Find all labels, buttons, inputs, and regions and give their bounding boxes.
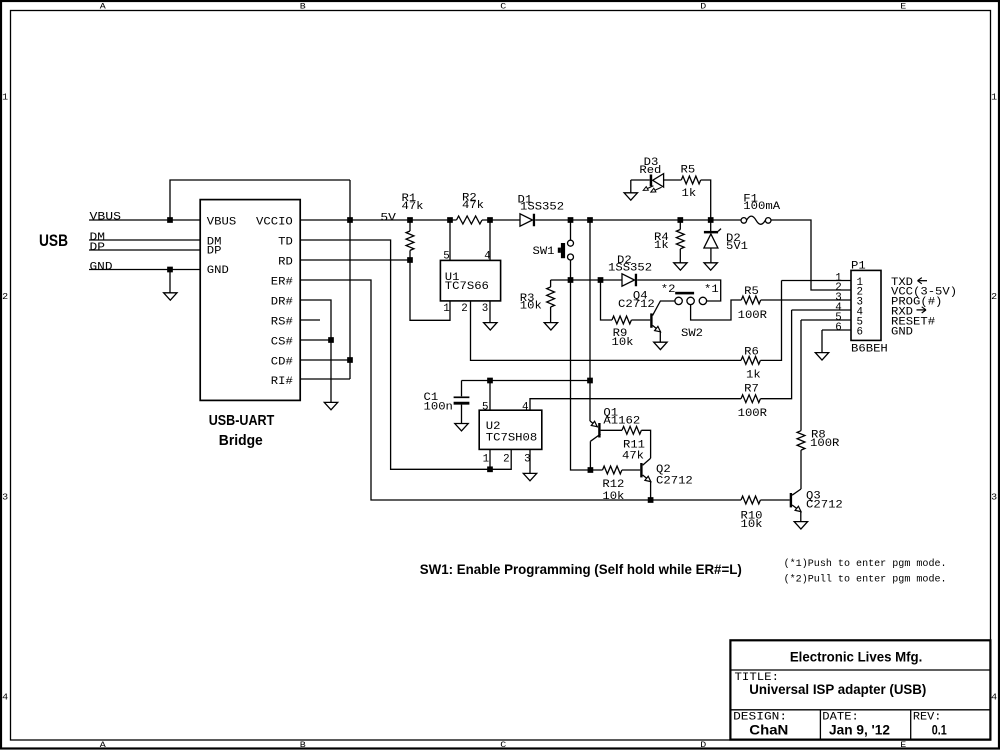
title block divider v1 — [819, 710, 821, 740]
wire RI# — [300, 378, 350, 380]
transistor Q4 base bar — [650, 313, 652, 327]
junction R4 top — [677, 217, 683, 223]
wire GND — [89, 269, 200, 271]
wire U1 pin4 up — [489, 220, 491, 260]
svg-text:1SS352: 1SS352 — [520, 201, 564, 213]
resistor R2 body — [457, 216, 483, 224]
wire R8 to Q3 — [800, 450, 802, 489]
fuse F1 — [741, 218, 747, 224]
svg-text:4: 4 — [991, 692, 997, 702]
resistor R9 body — [612, 316, 631, 324]
wire Q3 emitter lead — [792, 505, 801, 521]
svg-text:TC7S66: TC7S66 — [445, 281, 489, 293]
svg-text:U2: U2 — [486, 421, 501, 433]
junction CD# — [347, 357, 353, 363]
diode D1 1SS352 — [520, 214, 533, 227]
switch SW1 top contact — [568, 240, 574, 246]
connector P1 box — [851, 270, 881, 340]
diode D2 zener triangle — [704, 234, 718, 248]
junction CS# — [328, 337, 334, 343]
LED D3 emission arrow 2 — [653, 187, 662, 191]
wire C1 top stub — [461, 381, 463, 397]
svg-text:CS#: CS# — [271, 336, 293, 348]
svg-text:VBUS: VBUS — [207, 217, 237, 229]
svg-text:B6BEH: B6BEH — [851, 344, 888, 356]
wire 5V to Q1 emitter — [589, 381, 591, 422]
wire R12 to Q2 base — [622, 469, 640, 471]
svg-text:DESIGN:: DESIGN: — [733, 711, 787, 723]
transistor Q3 base bar — [790, 493, 792, 507]
svg-text:3: 3 — [2, 492, 8, 502]
junction U2 pin5 rail — [487, 378, 493, 384]
junction GND — [167, 267, 173, 273]
wire U2 pin1 — [489, 449, 491, 469]
svg-text:10k: 10k — [612, 337, 634, 349]
junction U2 pin1 — [487, 466, 493, 472]
svg-text:GND: GND — [90, 262, 113, 274]
svg-text:R5: R5 — [744, 286, 759, 298]
transistor Q1 base bar — [598, 423, 600, 438]
resistor R10 body — [741, 496, 760, 504]
wire DM — [89, 239, 200, 241]
svg-text:2: 2 — [461, 303, 468, 315]
svg-text:10k: 10k — [741, 519, 763, 531]
wire U2 pin5 — [489, 381, 491, 411]
svg-text:GND: GND — [891, 327, 913, 339]
svg-text:Jan 9, '12: Jan 9, '12 — [829, 723, 890, 738]
ground symbol R3 — [544, 323, 557, 330]
wire D2 to SW2 — [637, 280, 721, 301]
svg-text:4: 4 — [522, 402, 529, 414]
svg-text:10k: 10k — [520, 301, 542, 313]
junction VBUS — [167, 217, 173, 223]
wire U2 vcc rail — [462, 380, 591, 382]
wire U1 pin2 down to R6 rail — [471, 301, 742, 361]
wire R4 top stub — [679, 220, 681, 230]
wire Q4 collector — [653, 301, 675, 316]
svg-text:USB: USB — [39, 232, 68, 250]
ground symbol U1 pin3 — [484, 323, 497, 330]
wire fuse to P1 pin2 — [771, 220, 851, 290]
ground symbol P1 — [815, 353, 828, 360]
svg-text:47k: 47k — [462, 200, 484, 212]
wire VCCIO to R2 — [300, 219, 457, 221]
svg-text:2: 2 — [2, 292, 8, 302]
svg-text:DP: DP — [207, 246, 222, 258]
svg-text:SW1: Enable Programming (Self: SW1: Enable Programming (Self hold while… — [420, 561, 742, 577]
ground symbol zener — [704, 263, 717, 270]
arrow RXD out — [917, 309, 927, 311]
svg-text:(*1)Push to enter pgm mode.: (*1)Push to enter pgm mode. — [784, 558, 947, 570]
wire pgm row — [551, 279, 622, 281]
switch SW2 actuator bar — [675, 292, 694, 295]
svg-text:C2712: C2712 — [806, 499, 843, 511]
svg-text:3: 3 — [482, 303, 489, 315]
svg-text:100R: 100R — [738, 310, 768, 322]
USB-UART bridge IC box — [200, 200, 300, 401]
wire RD to U1 pin1 — [410, 260, 450, 320]
wire U1 pin5 up — [449, 220, 451, 260]
svg-text:5: 5 — [443, 251, 450, 263]
wire U2 pin4 out — [530, 399, 741, 411]
junction top rail VCCIO — [347, 217, 353, 223]
wire R5 to P1 pin3 — [761, 299, 851, 301]
wire 5V rail drop x590 — [589, 220, 591, 381]
transistor Q2 collector lead — [643, 458, 651, 465]
wire R4 bottom stub — [679, 249, 681, 263]
wire Q4 emitter — [653, 325, 661, 342]
svg-text:3: 3 — [991, 492, 997, 502]
wire TD down — [300, 240, 490, 469]
wire LED gnd stub — [630, 180, 632, 193]
resistor R5 1k body — [681, 176, 700, 184]
wire RESET down — [800, 320, 802, 431]
wire LED gnd side — [631, 179, 650, 181]
transistor Q1 emitter arrow — [591, 421, 597, 426]
wire C1 bottom stub — [461, 405, 463, 424]
wire DP — [89, 249, 200, 251]
svg-text:10k: 10k — [602, 491, 624, 503]
wire zener top stub — [710, 220, 712, 231]
wire P1 pin4 — [792, 309, 851, 311]
junction RD R1 — [407, 257, 413, 263]
resistor R1 body — [406, 231, 414, 250]
resistor R8 body — [797, 431, 805, 450]
resistor R3 body — [547, 287, 555, 307]
svg-text:Red: Red — [639, 165, 661, 177]
svg-text:RI#: RI# — [271, 376, 293, 388]
diode D2 1SS352 — [622, 274, 635, 287]
svg-text:*2: *2 — [661, 284, 676, 296]
svg-text:REV:: REV: — [913, 711, 942, 723]
resistor R12 body — [603, 466, 622, 474]
svg-text:Electronic Lives Mfg.: Electronic Lives Mfg. — [790, 649, 923, 665]
svg-text:1k: 1k — [682, 188, 697, 200]
svg-text:ChaN: ChaN — [749, 723, 788, 738]
resistor R7 body — [741, 395, 760, 403]
wire top rail down — [349, 180, 351, 379]
wire R9 left — [601, 280, 613, 320]
svg-text:2: 2 — [991, 292, 997, 302]
wire R11 to Q2 collector — [641, 430, 650, 458]
op-amp U1 box — [440, 260, 500, 301]
transistor Q3 collector lead — [792, 489, 801, 495]
ground symbol Q3 — [794, 522, 807, 529]
svg-text:1: 1 — [991, 92, 997, 102]
switch SW1 plunger — [561, 243, 565, 258]
ground symbol USB — [164, 293, 177, 300]
svg-text:VCCIO: VCCIO — [256, 216, 293, 228]
svg-text:Bridge: Bridge — [219, 432, 263, 449]
transistor Q2 emitter arrow — [645, 476, 651, 481]
wire D1 to fuse — [535, 219, 741, 221]
junction SW1 top — [568, 217, 574, 223]
svg-text:VBUS: VBUS — [90, 212, 122, 224]
resistor R4 body — [676, 230, 684, 249]
svg-text:CD#: CD# — [271, 356, 293, 368]
svg-text:TC7SH08: TC7SH08 — [486, 433, 537, 445]
wire P1 pin5 — [801, 319, 851, 321]
junction Q2 emitter — [648, 497, 654, 503]
svg-text:TD: TD — [278, 236, 293, 248]
title block divider v2 — [910, 710, 912, 740]
svg-text:D: D — [700, 740, 706, 750]
op-amp U2 box — [479, 410, 542, 449]
svg-text:0.1: 0.1 — [932, 723, 947, 738]
junction Q1 collector base row — [588, 467, 594, 473]
wire SW1 row down — [571, 280, 603, 470]
transistor Q2 base bar — [640, 463, 642, 477]
wire P1 pin6 — [822, 329, 851, 331]
svg-text:1k: 1k — [654, 240, 669, 252]
svg-text:47k: 47k — [622, 450, 644, 462]
wire R5 to rail — [701, 180, 711, 220]
switch SW2 right contact — [699, 297, 706, 304]
wire SW1 top — [570, 220, 572, 240]
wire P1 pin1 — [782, 280, 852, 282]
svg-text:B: B — [300, 2, 306, 12]
svg-text:A: A — [100, 740, 107, 750]
wire U2 pins 1-2 link — [490, 449, 511, 469]
svg-text:E: E — [900, 2, 906, 12]
svg-text:47k: 47k — [402, 201, 424, 213]
LED D3 triangle — [653, 174, 664, 188]
svg-text:USB-UART: USB-UART — [209, 412, 275, 429]
wire R9 to Q4 base — [631, 319, 650, 321]
svg-text:E: E — [900, 740, 906, 750]
svg-text:100R: 100R — [738, 408, 768, 420]
junction zener top — [708, 217, 714, 223]
svg-text:6: 6 — [835, 322, 842, 334]
switch SW2 left contact — [675, 297, 682, 304]
wire U1 pin3 down — [489, 301, 491, 323]
ground symbol R4 — [674, 263, 687, 270]
svg-text:5: 5 — [482, 402, 489, 414]
junction U1 pin4 rail — [487, 217, 493, 223]
capacitor C1 plates — [454, 396, 470, 398]
wire ER# down — [300, 280, 741, 500]
svg-text:100R: 100R — [810, 438, 840, 450]
svg-text:1: 1 — [443, 303, 450, 315]
wire RD — [300, 259, 410, 261]
svg-text:1: 1 — [2, 92, 8, 102]
svg-text:C2712: C2712 — [618, 299, 655, 311]
svg-text:DATE:: DATE: — [822, 711, 859, 723]
wire Q1 base to R11 — [601, 429, 622, 431]
wire SW1 bottom — [570, 260, 572, 280]
wire Q1 collector down — [589, 441, 591, 470]
transistor Q3 emitter arrow — [795, 506, 801, 511]
svg-text:C: C — [500, 2, 506, 12]
svg-text:RS#: RS# — [271, 316, 293, 328]
title block divider 1 — [730, 669, 990, 671]
svg-text:1k: 1k — [746, 370, 761, 382]
title block box — [730, 640, 990, 739]
svg-text:A1162: A1162 — [603, 416, 640, 428]
svg-text:RD: RD — [278, 256, 293, 268]
svg-text:DR#: DR# — [271, 296, 293, 308]
wire R2 to D1 — [482, 219, 520, 221]
svg-text:5V1: 5V1 — [726, 241, 748, 253]
svg-text:5V: 5V — [380, 212, 396, 224]
wire CD# — [300, 359, 350, 361]
ground symbol Q4 — [654, 342, 667, 349]
wire U2 pin3 gnd — [529, 449, 531, 473]
svg-text:Universal ISP adapter (USB): Universal ISP adapter (USB) — [749, 682, 926, 697]
svg-text:SW2: SW2 — [681, 328, 703, 340]
junction x590 rail — [587, 217, 593, 223]
wire CS# — [300, 339, 331, 341]
svg-text:SW1: SW1 — [533, 246, 555, 258]
wire P1 pin6 gnd — [821, 330, 823, 352]
junction SW1 bottom row — [568, 277, 574, 283]
ground symbol C1 — [455, 424, 468, 431]
svg-text:R7: R7 — [744, 384, 759, 396]
svg-text:100n: 100n — [424, 401, 453, 413]
resistor R6 body — [741, 357, 760, 365]
ground symbol DR CS — [324, 402, 337, 409]
wire R7 to P1 pin4 — [760, 310, 791, 399]
svg-text:B: B — [300, 740, 306, 750]
svg-text:C: C — [500, 740, 506, 750]
wire Q2 emitter lead — [643, 475, 651, 500]
svg-text:R12: R12 — [602, 479, 624, 491]
svg-text:DP: DP — [90, 242, 106, 254]
svg-text:*1: *1 — [704, 284, 719, 296]
transistor Q1 collector lead — [590, 434, 600, 441]
wire R1 bottom stub — [409, 250, 411, 260]
transistor Q1 emitter lead — [590, 421, 598, 427]
ground symbol U2 pin3 — [523, 473, 536, 480]
diode D2 zener bar — [704, 231, 718, 234]
transistor Q4 emitter arrow — [655, 326, 661, 331]
wire R6 to P1 pin1 — [760, 281, 781, 361]
junction R9 row — [598, 277, 604, 283]
svg-text:100mA: 100mA — [743, 201, 780, 213]
svg-text:1SS352: 1SS352 — [608, 263, 652, 275]
svg-text:A: A — [100, 2, 107, 12]
junction R1 top — [407, 217, 413, 223]
wire VBUS — [89, 219, 200, 221]
svg-text:D: D — [700, 2, 706, 12]
wire LED to R5 — [664, 179, 682, 181]
junction U1 pin5 rail — [447, 217, 453, 223]
wire R3 bottom stub — [550, 307, 552, 322]
switch SW1 bottom contact — [568, 254, 574, 260]
title block divider 2 — [730, 709, 990, 711]
wire R3 stub — [550, 280, 552, 287]
wire R1 top stub — [409, 220, 411, 231]
svg-text:4: 4 — [2, 692, 8, 702]
svg-text:P1: P1 — [851, 260, 866, 272]
wire zener bottom stub — [710, 248, 712, 263]
LED D3 cathode bar — [650, 175, 653, 187]
wire SW2 common — [691, 300, 742, 320]
svg-text:ER#: ER# — [271, 276, 293, 288]
svg-text:GND: GND — [207, 265, 229, 277]
switch SW2 middle contact — [687, 297, 694, 304]
wire R10 to Q3 base — [760, 499, 789, 501]
resistor R11 body — [622, 426, 641, 434]
svg-text:R6: R6 — [744, 346, 759, 358]
svg-text:C2712: C2712 — [656, 476, 693, 488]
LED D3 emission arrow 1 — [645, 186, 653, 190]
ground symbol D3 — [624, 193, 637, 200]
wire VBUS to top rail — [170, 180, 350, 220]
wire GND stub down — [169, 270, 171, 293]
svg-text:R5: R5 — [681, 164, 696, 176]
svg-text:2: 2 — [503, 453, 510, 465]
junction x590 vcc — [587, 378, 593, 384]
wire RS# stub — [300, 319, 320, 321]
svg-text:(*2)Pull to enter pgm mode.: (*2)Pull to enter pgm mode. — [784, 573, 947, 585]
svg-text:1: 1 — [483, 453, 490, 465]
arrow TXD in — [918, 280, 928, 282]
svg-text:Q2: Q2 — [656, 464, 671, 476]
resistor R5 100R body — [741, 296, 760, 304]
svg-text:6: 6 — [857, 326, 864, 338]
wire DR# down — [300, 300, 331, 402]
